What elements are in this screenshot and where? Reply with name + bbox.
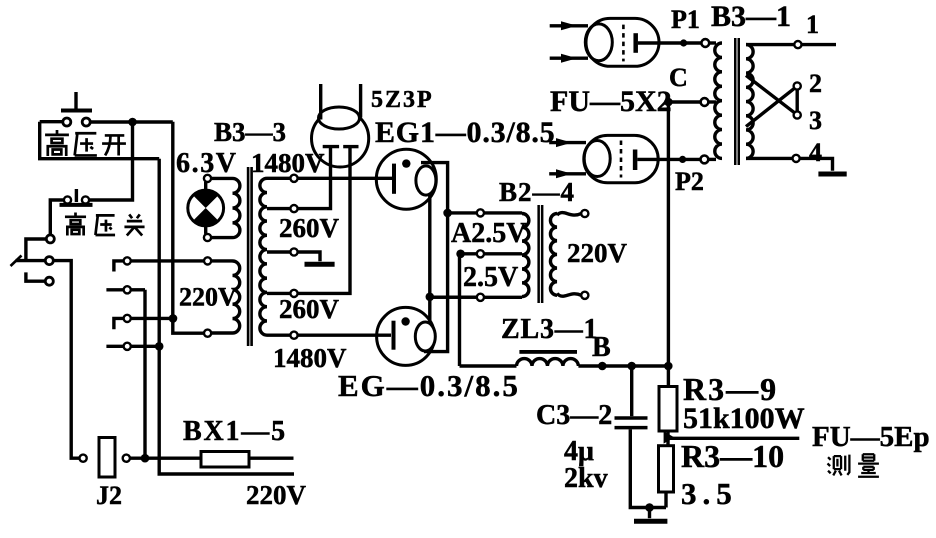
- svg-text:1480V: 1480V: [251, 148, 325, 178]
- svg-text:B2—4: B2—4: [499, 177, 575, 207]
- svg-text:3.5: 3.5: [681, 476, 738, 511]
- svg-text:ZL3—1: ZL3—1: [501, 314, 598, 345]
- svg-text:EG—0.3/8.5: EG—0.3/8.5: [338, 368, 520, 403]
- svg-text:R3—10: R3—10: [681, 438, 784, 474]
- svg-text:A2.5V: A2.5V: [451, 218, 526, 249]
- svg-text:EG1—0.3/8.5: EG1—0.3/8.5: [375, 116, 555, 149]
- svg-text:220V: 220V: [567, 238, 628, 268]
- svg-text:260V: 260V: [279, 213, 340, 243]
- svg-text:P2: P2: [675, 167, 704, 196]
- svg-text:FU—5X2: FU—5X2: [550, 85, 672, 118]
- svg-text:J2: J2: [96, 481, 122, 510]
- svg-text:2kv: 2kv: [564, 463, 608, 494]
- svg-text:B3—3: B3—3: [214, 117, 286, 147]
- svg-text:51k100W: 51k100W: [683, 402, 805, 435]
- svg-text:2.5V: 2.5V: [463, 262, 518, 293]
- svg-text:BX1—5: BX1—5: [183, 416, 287, 447]
- svg-text:P1: P1: [671, 5, 700, 34]
- svg-text:C3—2: C3—2: [536, 400, 612, 431]
- svg-text:FU—5Ep: FU—5Ep: [812, 421, 930, 453]
- svg-text:220V: 220V: [179, 283, 237, 312]
- svg-text:B: B: [592, 332, 611, 363]
- svg-text:2: 2: [809, 69, 822, 98]
- svg-text:C: C: [669, 63, 688, 92]
- svg-text:3: 3: [809, 106, 822, 135]
- svg-text:5Z3P: 5Z3P: [371, 87, 434, 113]
- svg-text:260V: 260V: [279, 294, 340, 324]
- svg-text:B3—1: B3—1: [711, 0, 791, 33]
- svg-text:220V: 220V: [246, 480, 307, 510]
- svg-text:1480V: 1480V: [273, 343, 347, 373]
- svg-text:4: 4: [809, 138, 822, 167]
- svg-text:1: 1: [806, 10, 819, 39]
- svg-text:6.3V: 6.3V: [176, 148, 238, 179]
